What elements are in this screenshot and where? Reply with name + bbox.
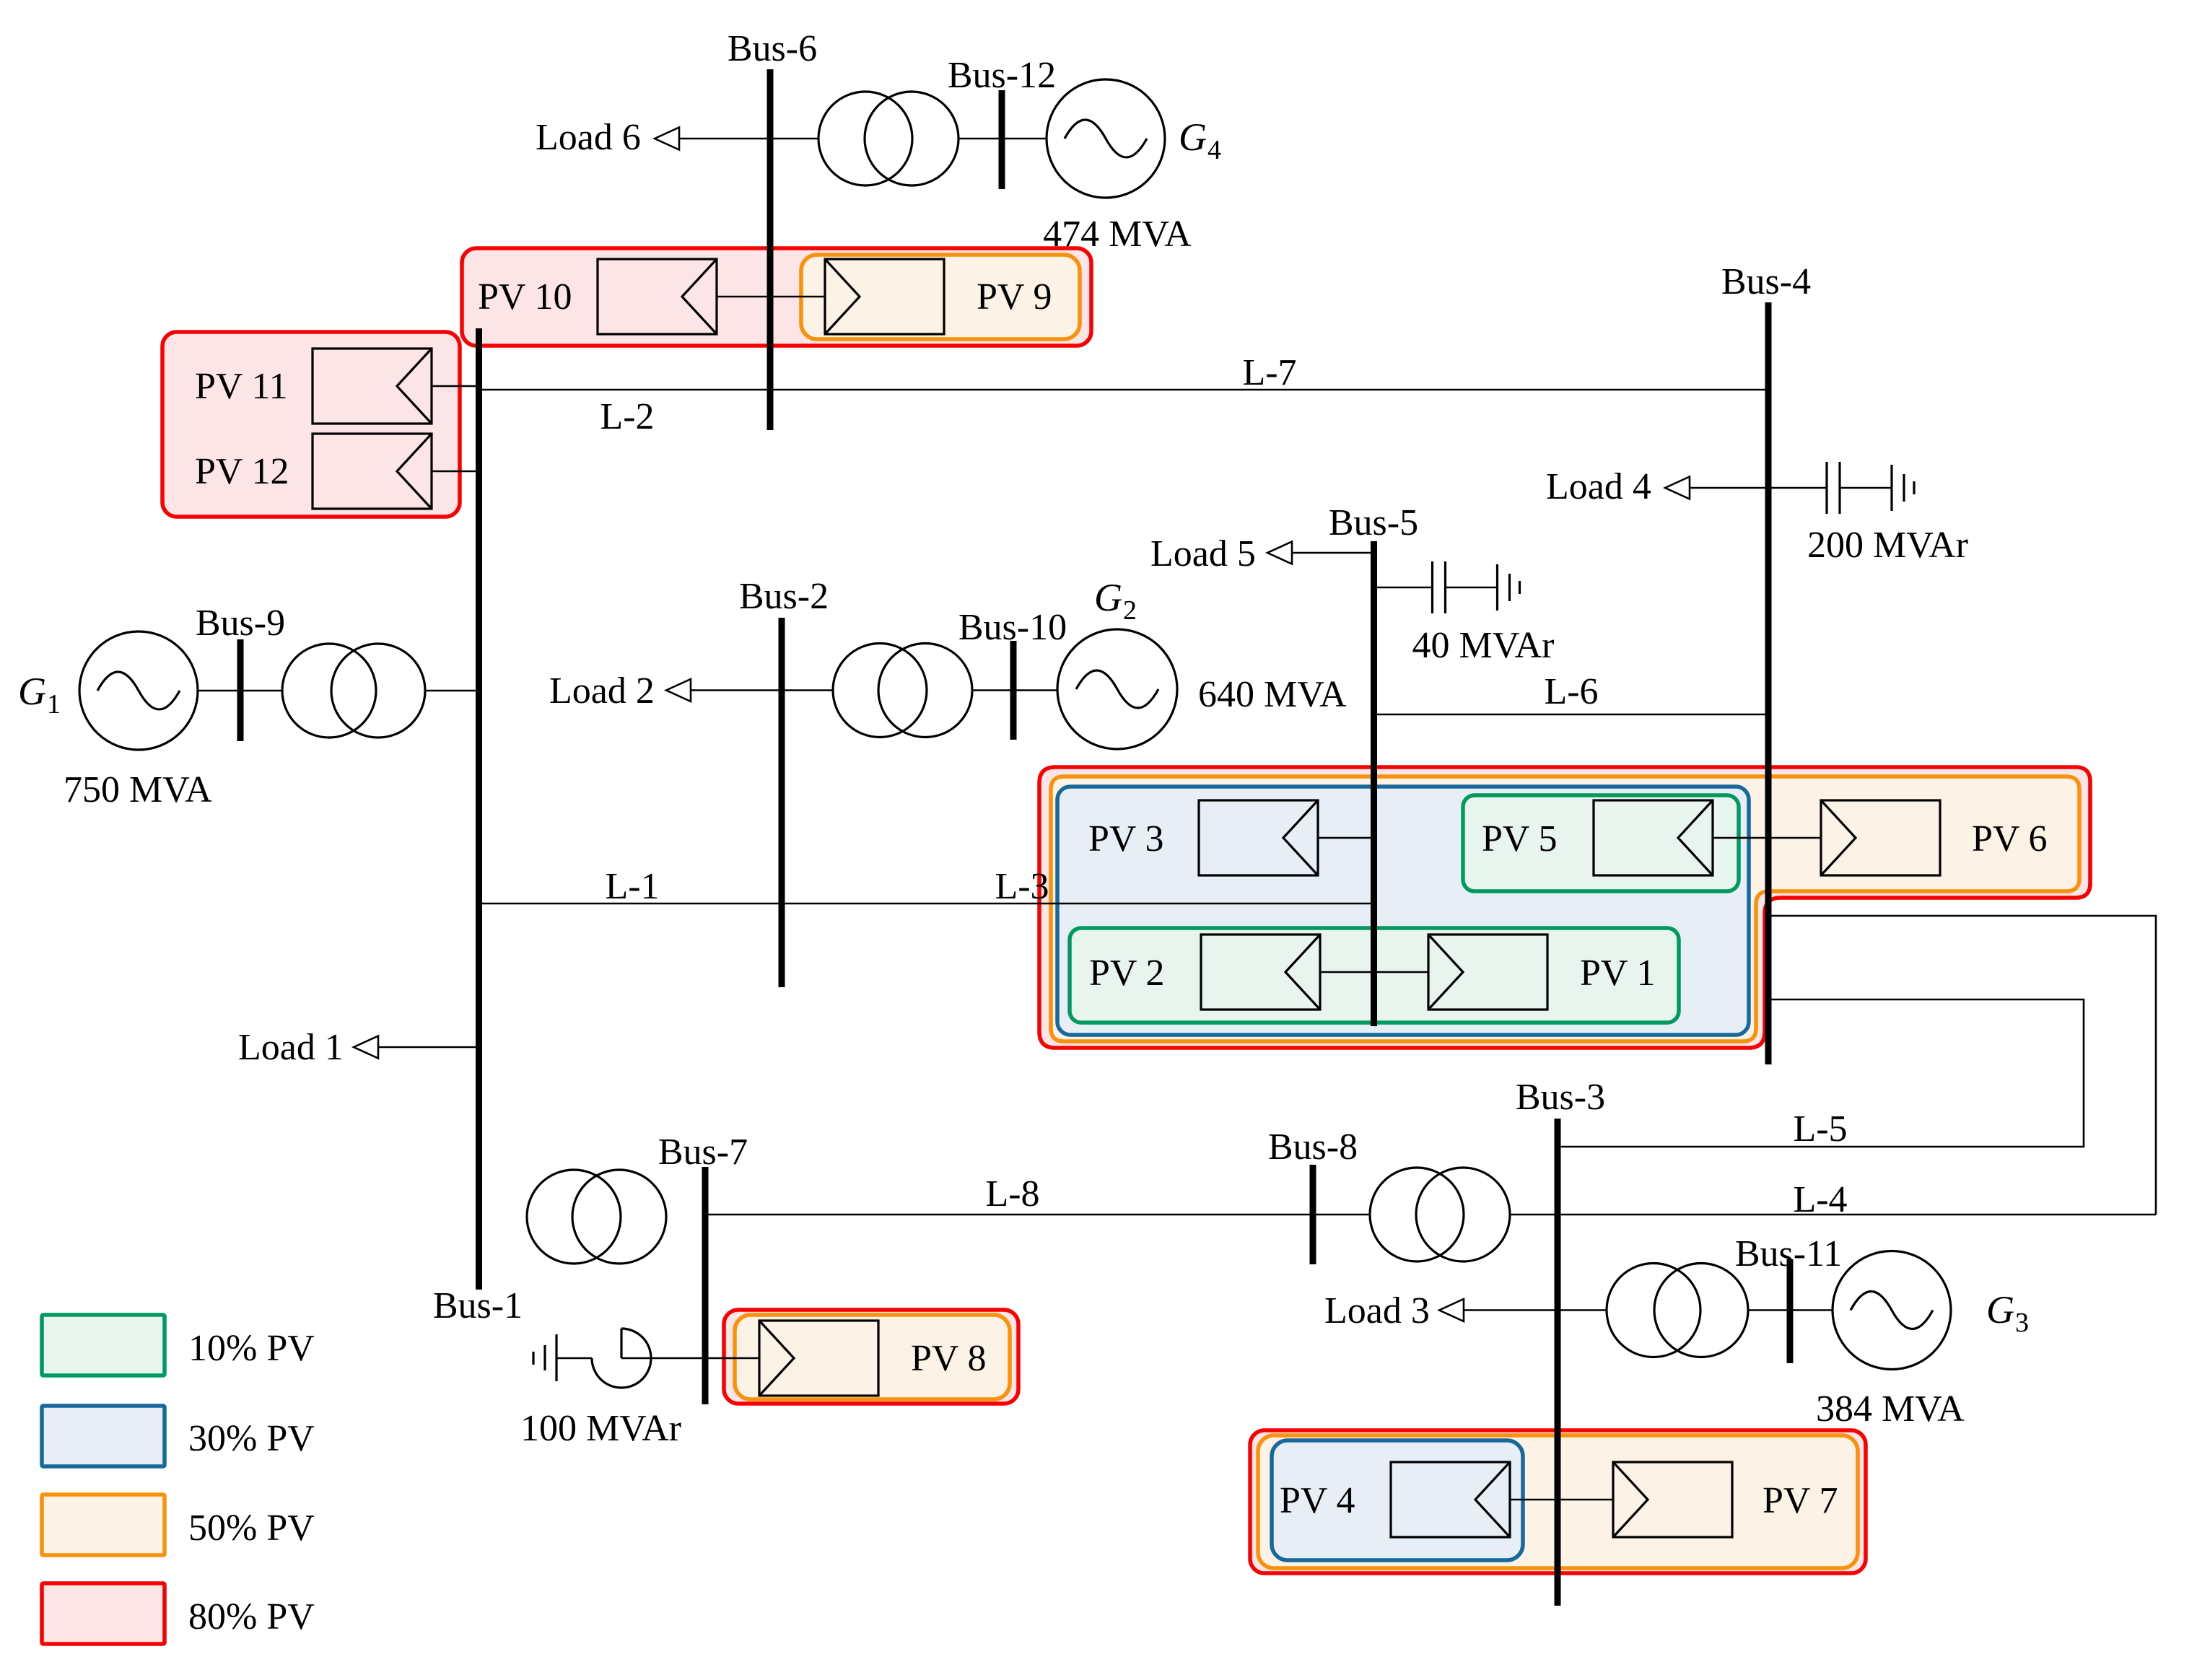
- svg-text:474 MVA: 474 MVA: [1043, 214, 1192, 255]
- wire Load 1 to Bus-1: [378, 1046, 479, 1049]
- bus Bus-5: [1371, 541, 1377, 1026]
- svg-text:Bus-11: Bus-11: [1735, 1233, 1842, 1274]
- transformer Bus-8 to Bus-3: [1370, 1168, 1464, 1261]
- load arrow Load 2: [666, 679, 691, 701]
- load arrow Load 4: [1665, 477, 1690, 499]
- bus Bus-9: [237, 639, 244, 741]
- PV 4 converter symbol: [1391, 1462, 1510, 1537]
- wire PV 3 to Bus-5: [1318, 837, 1374, 839]
- svg-text:10% PV: 10% PV: [188, 1328, 315, 1369]
- svg-text:50% PV: 50% PV: [188, 1508, 315, 1549]
- svg-text:PV 5: PV 5: [1482, 818, 1558, 859]
- legend swatch 30% PV: [42, 1406, 165, 1466]
- generator G2: [1057, 629, 1177, 749]
- wire transformer to Bus-11 to G3: [1748, 1309, 1833, 1311]
- wire ground to SVC 100 MVAr: [556, 1357, 592, 1360]
- load arrow Load 5: [1267, 542, 1292, 564]
- wire Load 2 to Bus-2 to transformer: [691, 689, 833, 691]
- svg-text:G: G: [1094, 576, 1122, 619]
- svg-text:Bus-2: Bus-2: [739, 576, 829, 617]
- svg-text:PV 3: PV 3: [1088, 818, 1164, 859]
- bus Bus-3: [1555, 1119, 1561, 1606]
- wire transformer to Bus-10 to G2: [972, 689, 1057, 691]
- svg-text:Load 6: Load 6: [536, 117, 641, 158]
- bus Bus-12: [999, 90, 1005, 189]
- line L-1 / L-3 from Bus-1 to Bus-5: [479, 903, 1374, 905]
- PV 6 converter symbol: [1821, 800, 1940, 875]
- svg-text:4: 4: [1207, 135, 1221, 165]
- svg-text:PV 6: PV 6: [1972, 818, 2048, 859]
- wire G1 to Bus-9 to transformer: [198, 690, 282, 692]
- svg-text:Bus-1: Bus-1: [433, 1285, 523, 1326]
- svg-text:PV 2: PV 2: [1089, 953, 1165, 994]
- 30% PV region box around PV 4 (blue): [1272, 1440, 1523, 1560]
- wire transformer to Bus-1: [425, 690, 479, 692]
- svg-text:Bus-7: Bus-7: [658, 1132, 748, 1173]
- transformer Bus-3 to Bus-11: [1607, 1264, 1700, 1357]
- line L-2 / L-7 from Bus-1 to Bus-4: [479, 389, 1769, 391]
- generator G3: [1833, 1251, 1951, 1370]
- wire+capacitor+ground 200 MVAr on Bus-4: [1768, 487, 1827, 489]
- load arrow Load 3: [1439, 1299, 1464, 1321]
- wire PV 11 to Bus-1: [431, 385, 479, 388]
- wire+capacitor+ground 40 MVAr on Bus-5: [1374, 587, 1433, 589]
- wire PV 2 to Bus-5 to PV 1: [1320, 971, 1428, 974]
- svg-text:Load 3: Load 3: [1324, 1290, 1430, 1331]
- svg-text:640 MVA: 640 MVA: [1198, 674, 1347, 715]
- 80% PV region box around PV 8 (red): [724, 1310, 1018, 1404]
- bus Bus-11: [1787, 1259, 1794, 1363]
- bus Bus-6: [767, 69, 774, 430]
- svg-text:Bus-4: Bus-4: [1721, 261, 1811, 302]
- svg-text:2: 2: [1123, 595, 1137, 626]
- svg-text:L-8: L-8: [985, 1173, 1039, 1215]
- 10% PV region box around PV 5 (green): [1463, 795, 1739, 891]
- legend swatch 50% PV: [42, 1495, 165, 1555]
- wire PV 12 to Bus-1: [431, 471, 479, 473]
- 80% PV region box around PV 11 / PV 12 (red): [162, 332, 460, 517]
- svg-text:PV 7: PV 7: [1763, 1480, 1838, 1521]
- svg-text:40 MVAr: 40 MVAr: [1412, 625, 1555, 666]
- svg-text:PV 10: PV 10: [478, 276, 572, 318]
- svg-text:30% PV: 30% PV: [188, 1418, 315, 1459]
- svg-text:Bus-6: Bus-6: [728, 28, 817, 69]
- PV 9 converter symbol: [825, 259, 944, 334]
- legend swatch 80% PV: [42, 1583, 165, 1644]
- 80% PV region box around PV 4 / PV 7 (red): [1250, 1430, 1866, 1573]
- SVC 100 MVAr symbol: [592, 1329, 651, 1388]
- wire Load 3 to Bus-3 to transformer: [1464, 1309, 1607, 1311]
- svg-text:200 MVAr: 200 MVAr: [1807, 525, 1968, 566]
- svg-text:L-3: L-3: [995, 866, 1049, 907]
- svg-text:G: G: [1179, 115, 1207, 159]
- bus Bus-8: [1310, 1165, 1316, 1264]
- PV 7 converter symbol: [1613, 1462, 1732, 1537]
- 80% PV region box around PV cluster (red): [1039, 767, 2090, 1048]
- PV 3 converter symbol: [1199, 800, 1318, 875]
- PV 8 converter symbol: [759, 1321, 878, 1396]
- wire PV 10 to Bus-6 to PV 9: [716, 296, 825, 298]
- transformer Bus-9 to Bus-1: [282, 644, 376, 738]
- line L-4 transformer through Bus-3 to right riser: [1510, 1214, 2156, 1216]
- wire Load 6 to Bus-6 to transformer: [679, 138, 818, 140]
- svg-text:PV 11: PV 11: [195, 366, 288, 407]
- svg-text:3: 3: [2015, 1308, 2029, 1338]
- legend swatch 10% PV: [42, 1315, 165, 1375]
- generator G1: [79, 631, 198, 750]
- line L-6 from Bus-5 to Bus-4: [1374, 714, 1769, 716]
- wire SVC to Bus-7 to PV 8: [621, 1357, 759, 1360]
- generator G4: [1047, 79, 1165, 198]
- PV 5 converter symbol: [1594, 800, 1713, 875]
- PV 10 converter symbol: [598, 259, 717, 334]
- svg-text:L-7: L-7: [1242, 352, 1296, 393]
- svg-text:Bus-9: Bus-9: [196, 603, 285, 644]
- svg-text:Bus-3: Bus-3: [1516, 1077, 1605, 1118]
- svg-text:750 MVA: 750 MVA: [64, 769, 212, 810]
- 80% PV region box around PV 10 / PV 9 (red): [462, 248, 1091, 346]
- svg-text:PV 1: PV 1: [1580, 953, 1656, 994]
- bus Bus-10: [1010, 641, 1017, 740]
- svg-text:PV 12: PV 12: [195, 451, 289, 492]
- svg-text:Bus-10: Bus-10: [958, 607, 1067, 648]
- svg-text:1: 1: [47, 689, 61, 719]
- transformer Bus-2 to Bus-10: [833, 644, 927, 738]
- wire PV 5 to Bus-4 to PV 6: [1713, 837, 1821, 839]
- 50% PV region box around PV 4 / PV 7 (orange): [1258, 1435, 1858, 1568]
- bus Bus-7: [702, 1167, 709, 1404]
- svg-text:L-4: L-4: [1793, 1179, 1847, 1220]
- 50% PV region box around PV 9 (orange): [801, 255, 1080, 339]
- svg-text:Load 2: Load 2: [549, 670, 655, 712]
- PV 1 converter symbol: [1428, 935, 1547, 1010]
- wire PV 4 to Bus-3 to PV 7: [1510, 1499, 1613, 1501]
- svg-text:PV 4: PV 4: [1280, 1480, 1355, 1521]
- load arrow Load 1: [354, 1036, 378, 1059]
- svg-text:Load 4: Load 4: [1546, 466, 1651, 507]
- PV 2 converter symbol: [1201, 935, 1320, 1010]
- svg-text:Bus-5: Bus-5: [1329, 502, 1418, 543]
- line L-4 from Bus-4 right and down: [1768, 916, 2156, 1215]
- load arrow Load 6: [655, 128, 679, 150]
- transformer Bus-6 to Bus-12: [818, 92, 912, 185]
- svg-text:384 MVA: 384 MVA: [1816, 1388, 1965, 1430]
- svg-text:PV 8: PV 8: [911, 1338, 987, 1379]
- 30% PV region box around PV 3/5/2/1 (blue): [1057, 787, 1749, 1035]
- svg-text:L-5: L-5: [1793, 1108, 1847, 1150]
- PV 11 converter symbol: [313, 349, 432, 424]
- svg-text:L-2: L-2: [600, 396, 654, 437]
- 50% PV region box around PV cluster (orange): [1051, 776, 2079, 1041]
- line L-8 from Bus-7 to Bus-8 to transformer: [705, 1214, 1370, 1216]
- wire Load 4 to Bus-4: [1690, 487, 1768, 489]
- PV 12 converter symbol: [313, 434, 432, 509]
- 50% PV region box around PV 8 (orange): [735, 1315, 1010, 1399]
- bus Bus-1: [476, 328, 482, 1290]
- svg-text:80% PV: 80% PV: [188, 1596, 315, 1637]
- bus Bus-4: [1765, 302, 1772, 1064]
- svg-text:L-6: L-6: [1544, 671, 1598, 712]
- transformer Bus-1 to Bus-7: [527, 1170, 621, 1264]
- line L-5 from Bus-4 right, down to Bus-3: [1558, 999, 2084, 1147]
- svg-text:L-1: L-1: [605, 866, 659, 907]
- svg-text:100 MVAr: 100 MVAr: [520, 1408, 681, 1449]
- svg-text:Load 1: Load 1: [238, 1027, 344, 1068]
- svg-text:PV 9: PV 9: [977, 276, 1052, 318]
- wire Load 5 to Bus-5: [1292, 552, 1374, 554]
- 10% PV region box around PV 2 and PV 1 (green): [1070, 928, 1679, 1023]
- svg-text:Load 5: Load 5: [1150, 533, 1256, 574]
- wire transformer to Bus-12 to G4: [958, 138, 1047, 140]
- svg-text:G: G: [1986, 1288, 2014, 1331]
- svg-text:Bus-12: Bus-12: [948, 55, 1056, 96]
- ground of SVC 100 MVAr: [555, 1334, 557, 1381]
- svg-text:G: G: [18, 670, 46, 713]
- svg-text:Bus-8: Bus-8: [1268, 1126, 1358, 1168]
- bus Bus-2: [779, 618, 785, 987]
